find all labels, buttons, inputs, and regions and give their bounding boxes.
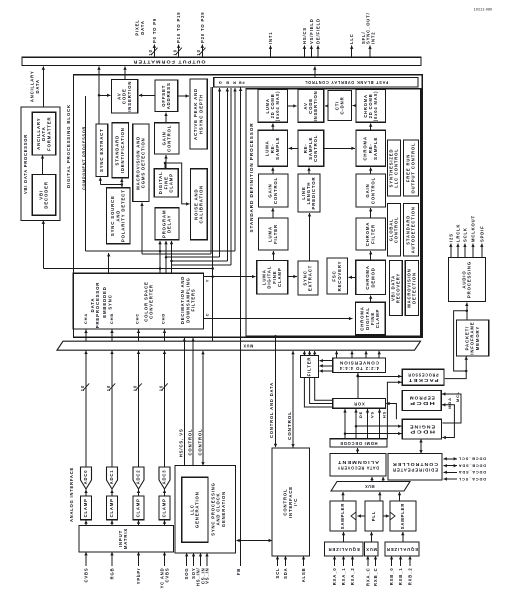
svg-text:HS: HS bbox=[381, 411, 386, 418]
svg-text:STANDARD DEFINITION PROCESSOR: STANDARD DEFINITION PROCESSOR bbox=[249, 122, 254, 232]
svg-text:XOR: XOR bbox=[353, 401, 364, 406]
svg-text:SPDIF: SPDIF bbox=[479, 225, 484, 242]
svg-text:PREDICTOR: PREDICTOR bbox=[311, 177, 316, 210]
svg-text:FAST BLANK OVERLAY CONTROL: FAST BLANK OVERLAY CONTROL bbox=[304, 80, 388, 85]
svg-text:ADDRESS: ADDRESS bbox=[166, 82, 171, 109]
svg-text:MDA: MDA bbox=[447, 397, 452, 409]
svg-text:CLAMP: CLAMP bbox=[162, 498, 167, 517]
svg-text:FORMATTER: FORMATTER bbox=[46, 117, 51, 151]
svg-text:CONVERTER: CONVERTER bbox=[149, 284, 154, 319]
svg-text:CONTROL: CONTROL bbox=[394, 216, 399, 243]
svg-text:CLAMP: CLAMP bbox=[169, 173, 174, 193]
svg-text:CHB: CHB bbox=[109, 313, 114, 324]
svg-text:SAMPLE: SAMPLE bbox=[275, 137, 280, 160]
svg-text:10: 10 bbox=[132, 385, 137, 391]
svg-text:CGMS DETECTION: CGMS DETECTION bbox=[141, 137, 146, 188]
svg-text:EXTRACT: EXTRACT bbox=[308, 265, 313, 291]
svg-text:HDCP: HDCP bbox=[409, 401, 435, 406]
svg-text:RGB: RGB bbox=[110, 568, 115, 580]
svg-text:DATA: DATA bbox=[35, 79, 40, 93]
svg-text:ALIGNMENT: ALIGNMENT bbox=[337, 460, 379, 465]
svg-text:CLAMP: CLAMP bbox=[136, 498, 141, 517]
svg-text:OUTPUT CONTROL: OUTPUT CONTROL bbox=[411, 143, 416, 194]
svg-text:DDCB_SCL: DDCB_SCL bbox=[458, 457, 486, 462]
svg-text:PROCESSING: PROCESSING bbox=[467, 261, 472, 298]
svg-text:VS: VS bbox=[370, 411, 375, 418]
svg-text:CVBS: CVBS bbox=[165, 568, 170, 583]
svg-text:SDA: SDA bbox=[283, 568, 288, 579]
svg-text:ENGINE: ENGINE bbox=[409, 424, 435, 429]
svg-text:FILTERS: FILTERS bbox=[190, 288, 195, 311]
svg-text:SAMPLE: SAMPLE bbox=[373, 137, 378, 160]
svg-text:POLARITY DETECT: POLARITY DETECT bbox=[121, 189, 126, 242]
svg-text:R: R bbox=[232, 80, 236, 85]
svg-text:FILTER: FILTER bbox=[370, 224, 375, 244]
svg-text:C: C bbox=[205, 313, 210, 317]
svg-text:EEPROM: EEPROM bbox=[409, 396, 435, 401]
svg-text:AUTODETECTION: AUTODETECTION bbox=[411, 206, 416, 253]
svg-text:B: B bbox=[225, 80, 229, 85]
svg-text:IDENTIFICATION: IDENTIFICATION bbox=[120, 127, 125, 173]
svg-text:SYNC EXTRACT: SYNC EXTRACT bbox=[99, 128, 104, 172]
svg-text:MUX: MUX bbox=[243, 344, 254, 349]
svg-text:INSERTION: INSERTION bbox=[127, 81, 132, 112]
svg-text:GENERATION: GENERATION bbox=[195, 491, 200, 528]
svg-text:DATA RECOVERY: DATA RECOVERY bbox=[337, 465, 379, 470]
svg-text:SAMPLER: SAMPLER bbox=[400, 503, 405, 529]
svg-text:RXA_C: RXA_C bbox=[365, 568, 370, 586]
svg-text:(0x04 MAX): (0x04 MAX) bbox=[373, 91, 378, 122]
svg-text:CONTROL: CONTROL bbox=[370, 177, 375, 204]
svg-text:RXB_2: RXB_2 bbox=[408, 568, 413, 586]
svg-text:DELAY: DELAY bbox=[167, 215, 172, 233]
svg-text:YPbPr: YPbPr bbox=[136, 568, 141, 585]
svg-text:VS/FIELD: VS/FIELD bbox=[309, 18, 314, 44]
svg-text:ADC1: ADC1 bbox=[109, 470, 114, 485]
svg-text:DEMOD: DEMOD bbox=[370, 267, 375, 287]
svg-text:P10 TO P19: P10 TO P19 bbox=[176, 12, 181, 43]
svg-text:P20 TO P29: P20 TO P29 bbox=[200, 12, 205, 43]
svg-text:EDID/REPEATER: EDID/REPEATER bbox=[392, 467, 438, 472]
svg-text:DDCA_SDA: DDCA_SDA bbox=[458, 470, 486, 475]
svg-text:G: G bbox=[218, 80, 222, 85]
svg-text:CONTROL AND DATA: CONTROL AND DATA bbox=[269, 382, 274, 438]
svg-text:SOG: SOG bbox=[184, 568, 189, 580]
svg-text:HSYNC DEPTH: HSYNC DEPTH bbox=[198, 94, 203, 134]
svg-text:INT2: INT2 bbox=[370, 32, 375, 44]
svg-text:10: 10 bbox=[158, 385, 163, 391]
svg-text:CONTROL: CONTROL bbox=[197, 429, 202, 456]
svg-text:DECODER: DECODER bbox=[44, 181, 49, 208]
svg-text:DE/FIELD: DE/FIELD bbox=[316, 18, 321, 44]
svg-text:CLAMP: CLAMP bbox=[375, 309, 380, 329]
svg-text:EQUALIZER: EQUALIZER bbox=[386, 547, 418, 552]
svg-text:CVBS: CVBS bbox=[84, 568, 89, 583]
svg-text:CLAMP: CLAMP bbox=[277, 267, 282, 287]
svg-text:OUTPUT FORMATTER: OUTPUT FORMATTER bbox=[132, 59, 205, 64]
svg-text:PACKET: PACKET bbox=[408, 378, 439, 383]
svg-text:CONTROL: CONTROL bbox=[273, 177, 278, 204]
svg-text:DDCB_SDA: DDCB_SDA bbox=[458, 464, 486, 469]
svg-text:4:2:2 TO 4:4:4: 4:2:2 TO 4:4:4 bbox=[339, 366, 379, 371]
svg-text:SCLK: SCLK bbox=[462, 227, 467, 242]
svg-text:RECOVERY: RECOVERY bbox=[396, 273, 401, 303]
svg-text:MCL: MCL bbox=[455, 391, 460, 402]
svg-text:FILTER: FILTER bbox=[307, 357, 312, 377]
svg-text:RXA_2: RXA_2 bbox=[350, 568, 355, 586]
svg-text:DE: DE bbox=[358, 411, 363, 418]
svg-text:LLC CONTROL: LLC CONTROL bbox=[394, 148, 399, 187]
svg-text:RXA_0: RXA_0 bbox=[332, 568, 337, 586]
svg-text:GENERATION: GENERATION bbox=[221, 491, 226, 527]
svg-text:FB: FB bbox=[236, 568, 241, 575]
svg-text:INSERTION: INSERTION bbox=[313, 90, 318, 121]
svg-text:RXA_1: RXA_1 bbox=[341, 568, 346, 586]
svg-text:CALIBRATION: CALIBRATION bbox=[199, 185, 204, 224]
svg-text:HDMI DECODE: HDMI DECODE bbox=[340, 441, 378, 446]
svg-text:VBI DATA PROCESSOR: VBI DATA PROCESSOR bbox=[23, 134, 28, 194]
svg-text:HS/CS, VS: HS/CS, VS bbox=[178, 428, 183, 457]
svg-text:MEMORY: MEMORY bbox=[475, 326, 480, 350]
svg-text:DDCA_SCL: DDCA_SCL bbox=[458, 477, 486, 482]
svg-text:ANALOG INTERFACE: ANALOG INTERFACE bbox=[69, 467, 74, 522]
svg-text:CONTROL: CONTROL bbox=[287, 411, 292, 440]
svg-text:10: 10 bbox=[106, 385, 111, 391]
svg-text:FILTER: FILTER bbox=[273, 224, 278, 244]
svg-text:VS_IN: VS_IN bbox=[205, 568, 210, 584]
svg-text:MUX: MUX bbox=[365, 547, 377, 552]
svg-text:FB: FB bbox=[238, 80, 245, 84]
svg-text:DIGITAL PROCESSING BLOCK: DIGITAL PROCESSING BLOCK bbox=[66, 104, 71, 188]
svg-text:CLAMP: CLAMP bbox=[109, 498, 114, 517]
svg-text:RXB_C: RXB_C bbox=[373, 568, 378, 586]
svg-text:LRCLK: LRCLK bbox=[455, 224, 460, 242]
svg-text:I²C: I²C bbox=[293, 498, 298, 506]
svg-text:MUX: MUX bbox=[365, 484, 375, 489]
svg-text:MCLKOUT: MCLKOUT bbox=[471, 215, 476, 242]
svg-text:MATRIX: MATRIX bbox=[123, 528, 128, 549]
svg-text:10211-080: 10211-080 bbox=[474, 8, 493, 12]
svg-text:DETECTION: DETECTION bbox=[412, 272, 417, 304]
svg-text:ADC3: ADC3 bbox=[162, 470, 167, 485]
svg-text:C-DNR: C-DNR bbox=[340, 96, 345, 114]
svg-text:EQUALIZER: EQUALIZER bbox=[328, 547, 360, 552]
svg-text:HS/CS: HS/CS bbox=[302, 27, 307, 44]
svg-text:10: 10 bbox=[196, 49, 201, 55]
svg-text:I2S: I2S bbox=[448, 233, 453, 242]
svg-text:ALSB: ALSB bbox=[301, 568, 306, 583]
svg-text:RECOVERY: RECOVERY bbox=[337, 261, 342, 292]
svg-text:HDCP: HDCP bbox=[409, 430, 435, 435]
svg-text:INT1: INT1 bbox=[268, 32, 273, 44]
svg-text:PROCESSOR: PROCESSOR bbox=[408, 372, 439, 377]
svg-text:10: 10 bbox=[173, 49, 178, 55]
svg-text:DATA: DATA bbox=[140, 20, 145, 34]
svg-text:SAMPLER: SAMPLER bbox=[340, 503, 345, 529]
svg-text:LLC: LLC bbox=[349, 33, 354, 44]
svg-text:CHD: CHD bbox=[161, 313, 166, 324]
svg-text:10: 10 bbox=[80, 385, 85, 391]
svg-text:P0 TO P9: P0 TO P9 bbox=[152, 18, 157, 43]
svg-text:RXB_1: RXB_1 bbox=[398, 568, 403, 586]
svg-text:(0x04 MAX): (0x04 MAX) bbox=[275, 91, 280, 122]
svg-text:SYNC: SYNC bbox=[107, 294, 112, 309]
svg-text:PREPROCESSOR: PREPROCESSOR bbox=[95, 282, 100, 329]
svg-text:CLAMP: CLAMP bbox=[83, 498, 88, 517]
svg-text:Y: Y bbox=[205, 279, 210, 283]
svg-text:SCL: SCL bbox=[275, 568, 280, 579]
svg-text:CONTROL: CONTROL bbox=[167, 125, 172, 152]
svg-text:CHC: CHC bbox=[135, 313, 140, 324]
svg-text:CONTROL: CONTROL bbox=[313, 135, 318, 162]
svg-text:ADC2: ADC2 bbox=[136, 470, 141, 485]
svg-text:RXB_0: RXB_0 bbox=[389, 568, 394, 586]
svg-text:CONVERSION: CONVERSION bbox=[339, 360, 379, 365]
svg-text:CONTROLLER: CONTROLLER bbox=[392, 462, 438, 467]
svg-text:CHA: CHA bbox=[83, 313, 88, 324]
svg-text:ADC0: ADC0 bbox=[83, 470, 88, 485]
svg-text:PLL: PLL bbox=[371, 511, 376, 521]
svg-text:CONTROL: CONTROL bbox=[187, 429, 192, 456]
svg-text:10: 10 bbox=[148, 49, 153, 55]
